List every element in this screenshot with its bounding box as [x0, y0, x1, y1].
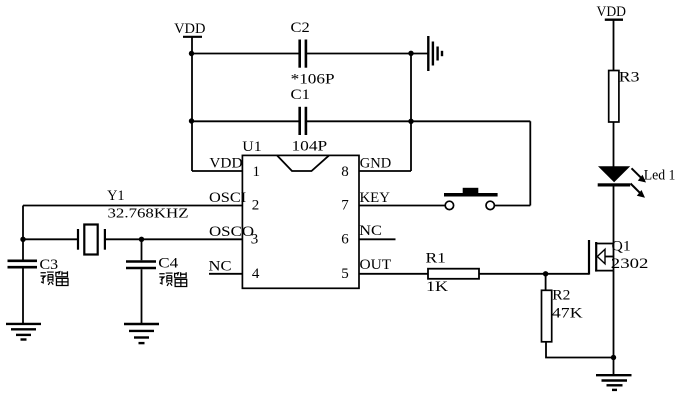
node junction crystal left / C3 [20, 237, 25, 242]
svg-text:6: 6 [341, 232, 349, 248]
svg-text:R1: R1 [426, 251, 446, 267]
wire OSCI left vertical [22, 206, 24, 240]
svg-text:5: 5 [341, 266, 349, 282]
wire C3 top lead [22, 239, 24, 259]
transistor Q1 MOSFET [589, 240, 614, 275]
resistor R1 [428, 269, 479, 279]
wire C1 right [306, 120, 530, 122]
wire LED to Q1 drain [613, 187, 615, 244]
svg-text:2302: 2302 [611, 256, 649, 272]
svg-text:VDD: VDD [597, 4, 627, 20]
node junction source/ground [611, 355, 616, 360]
wire OSCI horizontal [23, 205, 242, 207]
crystal Y1 [78, 225, 105, 255]
wire crystal left [23, 238, 78, 240]
svg-text:*106P: *106P [291, 71, 335, 87]
svg-text:NC: NC [209, 259, 232, 275]
svg-text:R2: R2 [552, 288, 570, 304]
wire C1 left [192, 120, 299, 122]
svg-text:8: 8 [341, 164, 349, 180]
wire C4 bottom lead [141, 269, 143, 324]
node junction earth net top [408, 51, 413, 56]
svg-text:R3: R3 [619, 70, 640, 86]
svg-text:OSCO: OSCO [209, 224, 254, 240]
svg-text:KEY: KEY [360, 190, 391, 206]
svg-text:7: 7 [341, 198, 349, 214]
node junction VDD rail / C2 [189, 51, 194, 56]
svg-text:104P: 104P [292, 138, 328, 154]
wire OUT pin5 to R1 [359, 273, 428, 275]
ground bottom-right [596, 375, 632, 390]
value 预留 (C4) [159, 272, 186, 286]
node junction C1 net [408, 119, 413, 124]
capacitor C2 [300, 40, 306, 68]
svg-text:VDD: VDD [209, 156, 242, 172]
svg-text:1: 1 [253, 164, 261, 180]
wire button to corner [494, 205, 530, 207]
svg-text:47K: 47K [552, 306, 583, 322]
resistor R2 [542, 290, 552, 342]
svg-text:Y1: Y1 [107, 188, 125, 204]
switch KEY button [444, 188, 498, 210]
svg-text:C4: C4 [158, 256, 178, 272]
wire R3 to LED [613, 122, 615, 167]
wire button corner vertical [529, 121, 531, 205]
wire C3 bottom lead [22, 269, 24, 324]
svg-text:1K: 1K [426, 279, 448, 295]
wire C4 top lead [141, 239, 143, 260]
svg-text:C3: C3 [40, 257, 59, 273]
capacitor C4 [126, 262, 156, 269]
svg-text:Led 1: Led 1 [644, 168, 676, 184]
power VDD left symbol [183, 36, 202, 38]
wire pin6 NC stub [359, 238, 396, 240]
svg-text:U1: U1 [242, 139, 261, 155]
wire Q1 source down [613, 271, 615, 376]
wire C2 right to earth [306, 53, 428, 55]
wire VDD rail to pin 1 [192, 170, 242, 172]
power VDD right symbol [605, 19, 623, 21]
wire R2 bottom lead [546, 342, 614, 358]
capacitor C1 [300, 107, 306, 135]
value 预留 (C3) [41, 271, 68, 285]
svg-text:2: 2 [252, 198, 259, 214]
capacitor C3 [8, 261, 38, 267]
svg-text:C1: C1 [291, 87, 311, 103]
wire R2 top lead [545, 274, 547, 291]
node junction crystal right / C4 [139, 237, 144, 242]
wire pin8 GND to vertical [359, 170, 411, 172]
svg-text:Q1: Q1 [612, 239, 631, 255]
ground C4 [124, 324, 159, 343]
wire vertical gnd-net x=411 [410, 54, 412, 172]
svg-text:OSCI: OSCI [209, 190, 246, 206]
svg-text:VDD: VDD [174, 21, 206, 37]
ground earth symbol top-right [428, 36, 442, 71]
wire crystal right to pin 3 [105, 238, 242, 240]
IC U1 notch [277, 155, 329, 171]
node junction VDD rail / C1 [189, 118, 194, 123]
wire R1 to gate [479, 273, 589, 275]
svg-text:OUT: OUT [360, 257, 392, 273]
wire C2 left [192, 53, 299, 55]
wire pin4 NC stub [209, 273, 242, 275]
ground C3 [6, 324, 41, 340]
svg-text:NC: NC [359, 223, 382, 239]
svg-text:32.768KHZ: 32.768KHZ [108, 206, 189, 221]
wire VDD-left vertical rail [191, 37, 193, 171]
svg-text:4: 4 [252, 266, 260, 282]
wire KEY pin7 to button [359, 205, 445, 207]
wire VDD right to R3 [613, 20, 615, 71]
IC U1 body [242, 155, 359, 288]
svg-text:C2: C2 [291, 20, 310, 36]
svg-text:GND: GND [360, 156, 392, 172]
diode LED Led1 [598, 166, 646, 198]
resistor R3 [609, 71, 619, 123]
svg-text:3: 3 [251, 232, 259, 248]
node junction R2 top [543, 271, 548, 276]
